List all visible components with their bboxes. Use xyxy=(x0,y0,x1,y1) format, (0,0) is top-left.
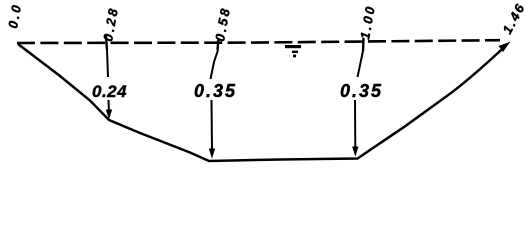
svg-text:0.35: 0.35 xyxy=(340,81,383,101)
svg-text:1.00: 1.00 xyxy=(357,3,378,40)
svg-text:0.24: 0.24 xyxy=(92,82,127,101)
svg-text:0.0: 0.0 xyxy=(5,2,24,30)
svg-text:0.28: 0.28 xyxy=(100,5,121,42)
svg-text:1.46: 1.46 xyxy=(499,0,525,36)
svg-text:0.58: 0.58 xyxy=(212,5,233,42)
svg-text:0.35: 0.35 xyxy=(194,81,237,101)
